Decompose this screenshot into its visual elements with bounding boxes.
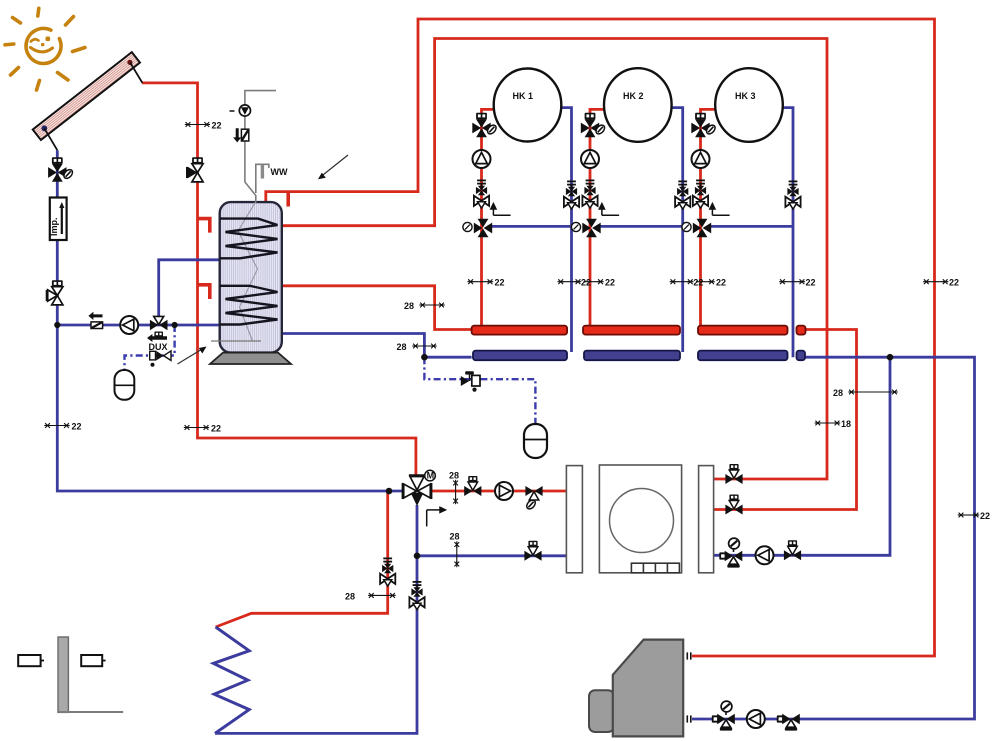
manifold supply bar xyxy=(472,326,806,335)
valve shutoff HK3 supply xyxy=(693,180,708,208)
junction unit lower branch xyxy=(414,553,421,560)
wire expansion line system xyxy=(424,357,535,424)
manifold return bar xyxy=(473,351,805,361)
wire floor heating zigzag xyxy=(213,627,249,733)
pump cold water xyxy=(239,105,250,116)
arrow actuator HK1 xyxy=(491,204,511,216)
svg-text:28: 28 xyxy=(404,301,414,311)
wire solar return column and main return to M-valve xyxy=(57,150,404,491)
valve mixing big M xyxy=(403,470,436,506)
wire HK3 supply xyxy=(701,109,716,327)
leader line into tank xyxy=(211,340,261,342)
wire HK1 return xyxy=(561,108,571,352)
check valve solar xyxy=(88,312,102,329)
valve DUX cap xyxy=(147,334,168,352)
valve shutoff unit return right xyxy=(784,540,801,560)
dim 22 solar return xyxy=(44,422,81,432)
svg-text:22: 22 xyxy=(581,278,591,288)
valve 4-way unit return w/ thermometer xyxy=(719,538,742,568)
dim 28 return feed xyxy=(397,342,437,352)
svg-text:28: 28 xyxy=(450,532,460,542)
arrow actuator HK3 xyxy=(710,204,730,216)
valve shutoff HK2 return xyxy=(675,181,690,209)
svg-text:22: 22 xyxy=(212,121,222,131)
valve 3-way solar flow w/ thermometer xyxy=(187,157,203,182)
valve shutoff unit right lower xyxy=(725,494,742,514)
dim 22 HK3 supply xyxy=(696,278,726,288)
wire HK3 mix jumper xyxy=(708,225,793,228)
WW tap stub xyxy=(261,165,264,179)
valve shutoff floor return xyxy=(409,582,424,610)
wire collector to flow pipe xyxy=(130,63,142,83)
valve mixing 4-way M HK1 xyxy=(463,219,492,237)
dim 28 unit return xyxy=(450,532,460,568)
svg-text:M: M xyxy=(427,471,435,481)
wire M-valve to unit left xyxy=(430,490,566,493)
wire HK2 supply xyxy=(590,109,604,327)
svg-text:18: 18 xyxy=(841,419,851,429)
valve 3-way mixing HK1 xyxy=(472,113,497,137)
junction return riser xyxy=(887,354,894,361)
dim 22 HK1 supply xyxy=(467,278,504,288)
svg-text:WW: WW xyxy=(271,167,288,177)
svg-text:22: 22 xyxy=(605,278,615,288)
svg-text:28: 28 xyxy=(449,471,459,481)
junction M blue xyxy=(386,488,393,495)
expansion vessel system xyxy=(524,424,547,458)
wire tank top to outer boiler loop xyxy=(266,19,935,656)
pump P1 (HK1) xyxy=(473,150,491,168)
wire HK2 mix jumper xyxy=(598,225,683,228)
arrow actuator M xyxy=(427,507,446,526)
wire tank stub top xyxy=(286,192,290,207)
wire collector to return pipe xyxy=(44,128,57,150)
valve shutoff HK3 return xyxy=(785,181,800,209)
svg-text:22: 22 xyxy=(806,278,816,288)
valve 4-way boiler w/ thermometer xyxy=(712,701,735,731)
valve shutoff unit right upper xyxy=(725,464,742,484)
wire HK3 return xyxy=(783,108,793,358)
svg-text:HK 1: HK 1 xyxy=(513,91,534,101)
valve 3-way solar return w/ gauge xyxy=(48,157,74,181)
wire WW outlet xyxy=(256,164,269,193)
wire tank mid to manifold left xyxy=(282,286,472,330)
wire manifold extension to boiler return xyxy=(692,357,975,719)
junction expansion branch xyxy=(172,322,178,328)
valve safety relief xyxy=(461,371,480,392)
valve 3-way unit supply w/ thermometer xyxy=(525,486,543,511)
wire floor-heating supply drop xyxy=(216,491,388,627)
svg-text:28: 28 xyxy=(397,342,407,352)
dim 22 HK3 return xyxy=(779,278,815,288)
wire M-valve bottom riser and floor loop return xyxy=(215,505,417,733)
valve mixing 4-way M HK3 xyxy=(682,219,711,237)
valve shutoff HK1 return xyxy=(564,181,579,209)
pump unit return xyxy=(756,546,774,564)
wire unit return riser xyxy=(714,357,890,555)
valve 3-way solar bottom xyxy=(150,316,168,336)
valve shutoff unit return low xyxy=(524,541,541,561)
dim 18 inner riser xyxy=(815,419,851,429)
wire tank left stub lower xyxy=(198,285,210,299)
valve shutoff HK2 supply xyxy=(582,180,597,208)
dim 22 solar flow xyxy=(185,121,222,131)
svg-text:HK 2: HK 2 xyxy=(623,91,644,101)
pump unit supply xyxy=(495,482,513,500)
dim 22 boiler riser xyxy=(923,278,959,288)
svg-text:22: 22 xyxy=(693,278,703,288)
pump P3 (HK3) xyxy=(692,150,710,168)
svg-text:28: 28 xyxy=(345,592,355,602)
svg-text:22: 22 xyxy=(72,422,82,432)
svg-text:22: 22 xyxy=(980,511,990,521)
arrow annotation DUX xyxy=(178,347,207,365)
svg-text:22: 22 xyxy=(949,278,959,288)
svg-text:HK 3: HK 3 xyxy=(735,91,756,101)
wire solar flow: collector to M-valve via left drop xyxy=(142,83,416,478)
junction manifold left xyxy=(421,354,428,361)
valve shutoff floor supply xyxy=(380,558,395,586)
dim 22 HK2 supply xyxy=(584,278,616,288)
valve shutoff unit supply xyxy=(464,476,481,496)
valve shutoff HK1 supply xyxy=(474,180,489,208)
dim 22 solar drop xyxy=(184,424,221,434)
valve 3-way mixing HK2 xyxy=(581,113,606,137)
arrow actuator HK2 xyxy=(599,204,619,216)
wire solar horizontal to tank xyxy=(57,324,219,327)
flow meter Imp. xyxy=(49,198,67,241)
wire tank left stub upper xyxy=(198,219,210,233)
dim 22 HK1 return xyxy=(558,278,592,288)
wire expansion line solar xyxy=(125,325,175,370)
valve 3-way boiler return xyxy=(777,714,800,731)
expansion vessel solar xyxy=(115,370,135,400)
dim 28 floor supply xyxy=(345,592,396,602)
wire tank bottom to manifold xyxy=(282,334,472,358)
wire HK1 mix jumper xyxy=(489,225,572,228)
valve mixing 4-way M HK2 xyxy=(571,219,600,237)
wire HK1 supply xyxy=(482,109,495,327)
wire inner loop tank to unit right xyxy=(282,39,827,480)
dim 22 boiler return riser xyxy=(958,511,990,521)
wire manifold right extension down to unit xyxy=(714,330,857,510)
svg-text:Imp.: Imp. xyxy=(49,217,59,236)
dim 28 right risers xyxy=(833,388,898,398)
pump P2 (HK2) xyxy=(581,150,599,168)
dim 28 manifold feed xyxy=(404,301,445,311)
svg-text:DUX: DUX xyxy=(149,342,168,352)
svg-text:22: 22 xyxy=(211,424,221,434)
valve shutoff solar column xyxy=(47,280,63,305)
wire unit return lower branch xyxy=(417,554,566,557)
svg-text:22: 22 xyxy=(495,278,505,288)
junction solar column xyxy=(54,322,60,328)
valve 3-way mixing HK3 xyxy=(691,113,716,137)
svg-text:28: 28 xyxy=(833,388,843,398)
pump boiler xyxy=(747,710,765,728)
arrow annotation tank top xyxy=(318,155,348,179)
dim 28 unit supply xyxy=(449,471,459,505)
svg-text:22: 22 xyxy=(716,278,726,288)
pump solar xyxy=(120,316,138,334)
wire cold water inlet xyxy=(245,91,276,203)
valve DUX safety xyxy=(150,351,171,367)
dim 22 HK2 return xyxy=(670,278,704,288)
wire branch to tank upper port xyxy=(159,260,220,316)
wire HK2 return xyxy=(672,108,683,352)
check valve cold water xyxy=(233,128,249,142)
